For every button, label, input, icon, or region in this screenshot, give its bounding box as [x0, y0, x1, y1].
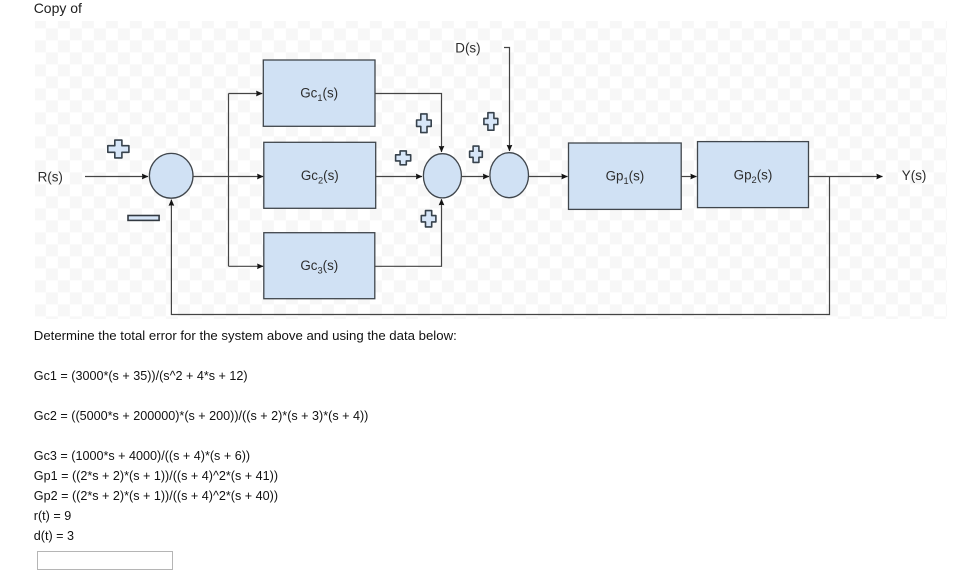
wire Gc2 output to S2 — [376, 176, 422, 178]
page title — [34, 0, 82, 16]
plus sign below S2 — [421, 211, 436, 227]
block Gc1 — [263, 60, 375, 126]
problem statement text — [34, 326, 457, 546]
block Gp2 — [698, 142, 809, 208]
wire S1 output to Gc2 with branch node — [193, 176, 263, 178]
wire Gp2 output to Y(s) — [809, 176, 883, 178]
svg-text:D(s): D(s) — [455, 40, 480, 55]
wire branch to Gc3 — [229, 265, 264, 267]
wire R(s) to summing junction S1 — [85, 176, 148, 178]
summing junction S1 — [149, 153, 193, 198]
block Gp1 — [569, 143, 682, 209]
plus sign left of S2 — [396, 151, 411, 165]
summing junction S2 — [423, 154, 461, 198]
wire S3 to Gp1 — [529, 176, 568, 178]
plus sign at S1 input — [108, 140, 129, 158]
minus sign at S1 feedback input — [128, 216, 159, 221]
svg-text:R(s): R(s) — [38, 170, 63, 185]
diagram canvas — [35, 21, 947, 319]
block Gc2 — [264, 142, 376, 208]
wire feedback from Gp2 output to S1 — [171, 177, 829, 315]
plus sign above S3 — [484, 113, 498, 131]
wire Gc3 output to S2 — [375, 199, 442, 266]
plus sign left of S3 — [470, 146, 483, 162]
answer input box — [37, 551, 173, 570]
wire Gc1 output to summing junction S2 — [375, 94, 442, 153]
wire D(s) to S3 — [504, 48, 510, 152]
summing junction S3 — [490, 153, 529, 198]
plus sign above S2 — [417, 114, 432, 133]
wire branch vertical — [228, 94, 230, 267]
svg-text:Y(s): Y(s) — [902, 168, 927, 183]
wire branch to Gc1 — [229, 93, 263, 95]
block Gc3 — [264, 233, 375, 299]
wire S2 to summing junction S3 — [462, 176, 490, 178]
wire Gp1 to Gp2 — [681, 176, 696, 178]
